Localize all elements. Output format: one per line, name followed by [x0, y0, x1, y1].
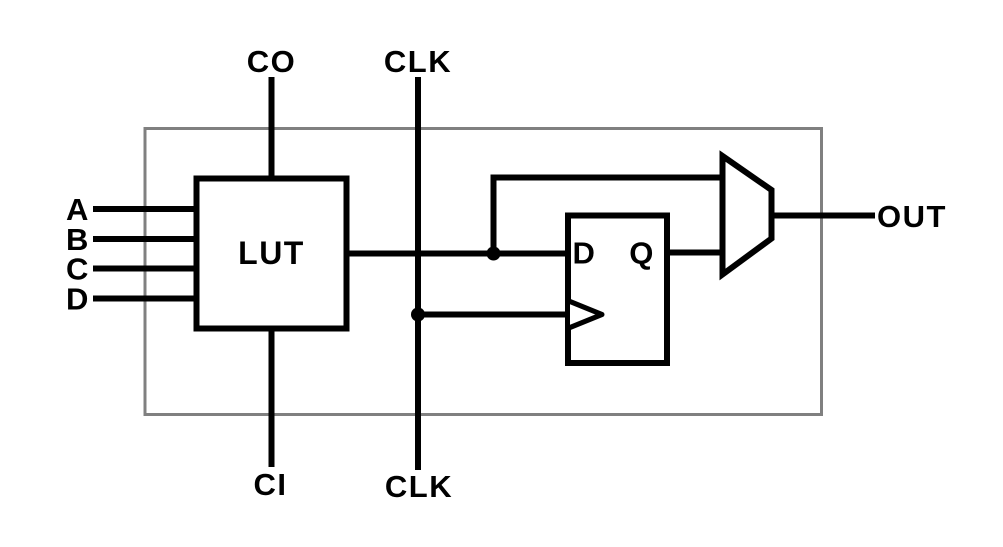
junction dot on LUT output: [487, 247, 501, 261]
wire Q output to mux: [667, 250, 723, 256]
svg-text:Q: Q: [629, 236, 655, 271]
wire D: [93, 296, 199, 302]
clock input triangle: [570, 302, 602, 328]
svg-text:D: D: [573, 236, 597, 271]
svg-text:CLK: CLK: [384, 44, 452, 79]
svg-text:CI: CI: [254, 467, 288, 502]
wire clock branch to flip-flop: [418, 312, 571, 318]
svg-text:CLK: CLK: [385, 469, 453, 504]
flip-flop DFF block: [568, 216, 667, 364]
LUT block: [197, 179, 347, 329]
svg-text:LUT: LUT: [238, 235, 305, 271]
wire LUT output: [347, 251, 569, 257]
svg-text:D: D: [66, 282, 90, 317]
wire CI: [269, 326, 275, 467]
wire CO: [269, 77, 275, 181]
cell boundary box: [145, 129, 822, 415]
junction dot on CLK line: [411, 308, 425, 322]
wire feedback vertical: [491, 178, 497, 254]
mux U1: [723, 156, 772, 275]
svg-text:OUT: OUT: [877, 199, 947, 234]
wire B: [93, 236, 199, 242]
wire mux output: [772, 213, 876, 219]
wire feedback horizontal to mux: [491, 175, 723, 181]
wire A: [93, 206, 199, 212]
wire C: [93, 266, 199, 272]
wire CLK vertical: [415, 77, 421, 470]
svg-text:CO: CO: [247, 44, 297, 79]
